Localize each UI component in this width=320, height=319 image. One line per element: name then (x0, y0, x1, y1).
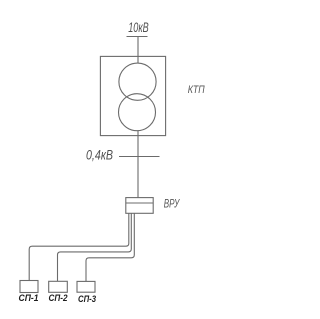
svg-text:10кВ: 10кВ (128, 20, 149, 35)
transformer secondary winding (119, 94, 156, 131)
bus tick 0,4кВ (119, 156, 160, 158)
supply terminal tick 10кВ (127, 36, 148, 38)
feeder wire 2: VRU to SP-2 (58, 213, 132, 281)
panel box СП-1 (20, 281, 38, 293)
svg-text:ВРУ: ВРУ (164, 196, 180, 210)
net label 10кВ (128, 20, 149, 35)
label СП-3 (78, 294, 97, 305)
svg-text:СП-3: СП-3 (78, 294, 97, 305)
VRU panel internal divider (126, 202, 153, 204)
feeder wire 1: VRU to SP-1 (29, 213, 129, 280)
wire: transformer to VRU (137, 131, 139, 198)
wire: supply drop to KTP box (137, 37, 139, 64)
VRU panel box (126, 198, 153, 214)
label КТП (188, 84, 205, 96)
svg-text:0,4кВ: 0,4кВ (86, 147, 113, 162)
label СП-1 (19, 293, 39, 304)
svg-text:КТП: КТП (188, 84, 205, 96)
svg-text:СП-1: СП-1 (19, 293, 39, 304)
label ВРУ (164, 196, 180, 210)
panel box СП-3 (77, 281, 95, 292)
feeder wire 3: VRU to SP-3 (86, 213, 134, 281)
KTP enclosure box (100, 56, 165, 135)
svg-text:СП-2: СП-2 (49, 293, 69, 304)
transformer primary winding (119, 63, 156, 100)
net label 0,4кВ (86, 147, 113, 162)
panel box СП-2 (49, 281, 68, 292)
label СП-2 (49, 293, 69, 304)
